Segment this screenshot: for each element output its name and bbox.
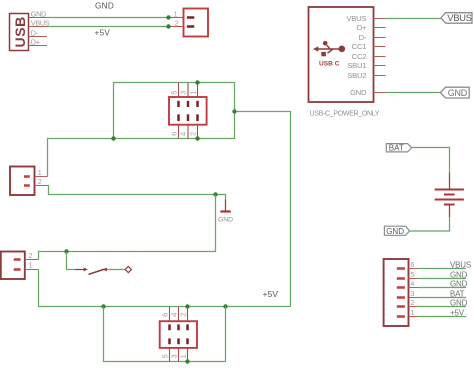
- junction dot X2 pin2: [166, 24, 170, 28]
- svg-text:USB: USB: [12, 16, 28, 47]
- junction dot bottom rail right: [223, 304, 227, 308]
- net flag GND (usb-c): [440, 87, 469, 98]
- wire +5V: X4 pin1 down to bottom rail: [39, 270, 291, 307]
- svg-text:1: 1: [29, 260, 33, 269]
- svg-text:GND: GND: [31, 9, 46, 18]
- junction dot bottom rail left: [101, 304, 105, 308]
- svg-text:D+: D+: [31, 37, 40, 46]
- svg-text:2: 2: [410, 298, 414, 307]
- wire X5 pin5 GND: [418, 278, 466, 280]
- svg-text:GND: GND: [350, 88, 367, 97]
- wire GND net: junction to gnd symbol: [216, 195, 226, 200]
- svg-text:D+: D+: [357, 23, 367, 32]
- svg-text:3: 3: [410, 289, 414, 298]
- svg-text:VBUS: VBUS: [450, 261, 471, 270]
- junction dot at (234.5,111.5): [232, 109, 236, 113]
- wire GND: U1 to flag: [386, 92, 441, 94]
- header JP1 (2x3, top): [169, 83, 207, 139]
- wire GND net: junction down to switch row and X4 pin2: [39, 195, 216, 260]
- svg-text:BAT: BAT: [389, 144, 404, 153]
- svg-text:+5V: +5V: [450, 309, 465, 318]
- svg-text:SBU1: SBU1: [347, 61, 366, 70]
- usb-c connector U1: [309, 7, 386, 102]
- wire BAT: flag to battery: [412, 148, 450, 173]
- svg-text:VBUS: VBUS: [31, 18, 50, 27]
- connector X2 (2-pin, top right): [169, 9, 209, 37]
- svg-text:2: 2: [188, 132, 197, 136]
- svg-text:4: 4: [410, 279, 414, 288]
- svg-text:VBUS: VBUS: [447, 13, 471, 24]
- svg-text:GND: GND: [450, 271, 468, 280]
- svg-text:GND: GND: [218, 217, 233, 224]
- svg-text:4: 4: [169, 313, 178, 317]
- svg-text:GND: GND: [450, 280, 468, 289]
- header JP2 (2x3, bottom): [160, 307, 197, 362]
- svg-text:6: 6: [160, 313, 169, 317]
- svg-text:5: 5: [160, 354, 169, 358]
- svg-text:2: 2: [175, 18, 179, 27]
- battery BT1: [435, 173, 464, 218]
- junction dot bottom rail JP2 pin2: [185, 304, 189, 308]
- connector X3 (2-pin, middle left): [10, 167, 48, 196]
- svg-text:4: 4: [179, 132, 188, 136]
- svg-text:3: 3: [169, 354, 178, 358]
- wire X5 pin2 GND: [418, 306, 466, 308]
- wire GND net: junction down to switch: [67, 252, 76, 270]
- connector X4 (2-pin, bottom left): [1, 251, 39, 279]
- junction dot GND net: [213, 192, 217, 196]
- wire X5 pin1 +5V: [418, 316, 466, 318]
- usb trident icon: [313, 41, 345, 68]
- svg-text:CC1: CC1: [352, 42, 367, 51]
- net flag GND (battery): [384, 226, 409, 236]
- svg-text:1: 1: [174, 9, 178, 18]
- usb connector X1: [10, 9, 50, 50]
- wire VBUS: U1 to flag: [386, 18, 441, 20]
- svg-text:GND: GND: [448, 88, 468, 98]
- junction dot X2 pin1: [166, 15, 170, 19]
- svg-text:USB C: USB C: [319, 61, 340, 68]
- junction dot JP1 pin1 top: [195, 80, 199, 84]
- svg-text:1: 1: [178, 354, 187, 358]
- svg-text:+5V: +5V: [95, 29, 111, 38]
- svg-text:5: 5: [410, 270, 414, 279]
- svg-text:SBU2: SBU2: [347, 71, 366, 80]
- wire +5V: USB VBUS pin to connector X2 pin 2: [47, 26, 169, 28]
- junction dot JP2 pin1 bottom: [185, 359, 189, 363]
- junction dot JP1 pin2 bottom: [195, 136, 199, 140]
- svg-text:6: 6: [410, 260, 414, 269]
- junction dot switch tap: [64, 249, 68, 253]
- svg-text:1: 1: [38, 168, 42, 177]
- svg-text:BAT: BAT: [450, 290, 465, 299]
- svg-text:3: 3: [179, 91, 188, 95]
- wire GND net: X3 pin2 jog to GND rail: [48, 186, 216, 195]
- svg-text:USB-C_POWER_ONLY: USB-C_POWER_ONLY: [310, 110, 380, 117]
- wire X5 pin4 GND: [418, 287, 466, 289]
- svg-text:D-: D-: [31, 28, 39, 37]
- svg-text:GND: GND: [95, 1, 114, 10]
- wire +5V loop around header JP1: [48, 83, 235, 177]
- wire battery to GND flag: [410, 217, 450, 231]
- net flag BAT: [386, 144, 411, 153]
- svg-text:2: 2: [38, 177, 42, 186]
- svg-text:1: 1: [410, 308, 414, 317]
- svg-text:2: 2: [29, 251, 33, 260]
- switch S1: [75, 266, 131, 274]
- wire +5V loop around header JP2: [104, 307, 226, 362]
- wire +5V from header JP1 loop to right riser: [235, 112, 291, 307]
- wire X5 pin6 VBUS: [418, 268, 466, 270]
- wire GND: USB GND pin to connector X2 pin 1: [47, 17, 169, 19]
- svg-text:+5V: +5V: [263, 289, 279, 299]
- ground symbol: [218, 200, 233, 224]
- junction dot at (113.5,138.5): [111, 136, 115, 140]
- svg-text:6: 6: [169, 132, 178, 136]
- svg-text:GND: GND: [450, 299, 468, 308]
- connector X5 (6-pin, bottom right): [384, 259, 418, 326]
- svg-text:CC2: CC2: [352, 52, 367, 61]
- svg-text:GND: GND: [386, 227, 404, 236]
- svg-text:1: 1: [188, 91, 197, 95]
- svg-text:D-: D-: [359, 33, 367, 42]
- svg-text:2: 2: [178, 313, 187, 317]
- svg-text:5: 5: [169, 91, 178, 95]
- net flag VBUS: [441, 13, 472, 25]
- wire X5 pin3 BAT: [418, 297, 466, 299]
- svg-text:VBUS: VBUS: [346, 14, 366, 23]
